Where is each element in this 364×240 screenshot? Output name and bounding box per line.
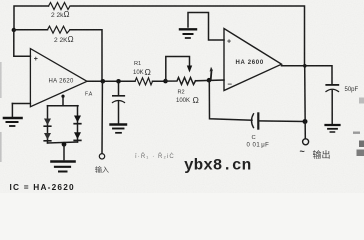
label R2	[176, 90, 199, 106]
caption IC = HA-2620	[10, 182, 75, 192]
capacitor C2 50pF plates	[326, 84, 338, 86]
op-amp U1 HA-2620 triangle	[30, 49, 87, 107]
label shuchu output	[313, 149, 331, 160]
capacitor C1 at node A stem	[118, 81, 120, 95]
diode D1	[44, 119, 51, 126]
label 2.2kOhm top	[51, 10, 69, 19]
resistor R2 zigzag	[166, 78, 196, 85]
capacitor C1 lower stem	[118, 102, 120, 124]
terminal input circle	[99, 154, 104, 159]
wire top feedback from output node to node F	[14, 6, 49, 30]
diode network bottom wire	[48, 142, 78, 143]
watermark ybx8.cn	[184, 157, 251, 175]
R2 wiper arrowhead	[187, 66, 192, 73]
node F junction dot	[12, 28, 16, 32]
ground capacitor C1	[111, 125, 127, 133]
diode network right branch wire	[77, 106, 79, 142]
ground stepped wire for op-amp2 + input	[188, 13, 224, 41]
node B junction dot	[207, 78, 212, 83]
label 50pF	[345, 87, 359, 93]
wire node B down to capacitor C	[209, 80, 252, 120]
label R1	[133, 61, 151, 77]
wire R2 wiper loop	[166, 57, 190, 82]
formula smudge text	[135, 153, 175, 160]
resistor 2.2kOhm top	[49, 3, 71, 10]
wire R1 to node C	[153, 80, 166, 82]
diode network left branch wire	[47, 106, 49, 143]
edge artifact right mid	[359, 98, 364, 104]
resistor 2.2kOhm second	[48, 26, 71, 33]
diode D4	[74, 132, 81, 139]
diode D2	[44, 133, 51, 140]
op-amp U2 plus sign	[227, 39, 231, 46]
ground op-amp2 input	[180, 29, 196, 38]
diode network stub from op-amp1	[62, 96, 64, 106]
wire output vertical	[304, 66, 307, 139]
node B ink mark arrow	[210, 71, 213, 80]
node A junction dot (op1 output)	[101, 79, 106, 84]
ground op-amp1 input	[11, 104, 13, 118]
wire diode network to ground dashed	[63, 146, 65, 160]
output node junction dot bottom	[303, 119, 308, 124]
resistor R1 zigzag	[135, 78, 153, 85]
capacitor C2 stem to ground	[331, 91, 333, 124]
diode D3	[74, 116, 81, 123]
op-amp U2 HA-2600 triangle	[224, 29, 282, 91]
edge artifact right smudges	[359, 141, 364, 148]
label FA near op-amp1 output	[85, 92, 93, 98]
node A2 junction dot (cap tap)	[116, 79, 121, 84]
label tilde output	[300, 147, 305, 157]
diode network bottom junction dot	[62, 142, 67, 147]
label C 0.01uF	[247, 135, 270, 149]
wire node F to op-amp1 + input	[14, 30, 31, 56]
ground capacitor C2	[326, 125, 340, 132]
capacitor C1 plates	[113, 95, 125, 97]
ground diode network	[52, 162, 75, 172]
edge artifact right dash	[353, 132, 360, 134]
wire node A to input terminal	[101, 81, 103, 153]
capacitor C plates	[252, 114, 254, 128]
op-amp U2 label HA 2600	[236, 60, 264, 66]
wire second feedback: node F to op-amp1 output	[14, 29, 48, 31]
diode network top wire	[48, 105, 79, 107]
edge artifact left smudge	[0, 62, 2, 98]
op-amp U1 plus sign	[34, 56, 38, 63]
wire capacitor C to output node	[258, 120, 305, 123]
op-amp U1 label HA 2620	[49, 79, 74, 85]
wire op-amp1 output to R1	[87, 80, 135, 82]
node C junction dot	[163, 79, 168, 84]
label shuru input	[95, 165, 109, 174]
wire op-amp1 lower input to ground	[12, 103, 30, 105]
op-amp U2 minus sign	[228, 80, 233, 89]
output junction dot at op2 output wire	[303, 64, 307, 68]
wire op-amp2 output	[282, 66, 333, 84]
terminal output circle	[303, 139, 309, 145]
wire R2 to node B	[196, 79, 225, 82]
label 2.2kOhm second	[54, 35, 74, 44]
